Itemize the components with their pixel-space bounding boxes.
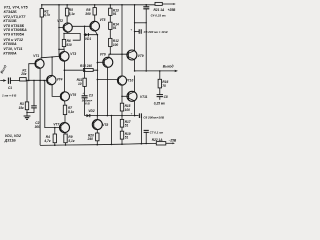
wire VT3 emitter to bus [63,61,65,70]
svg-text:VT5: VT5 [100,18,106,22]
svg-text:С4 0,33 мк: С4 0,33 мк [151,13,167,17]
column x122 [121,5,123,116]
svg-text:КТ808А: КТ808А [3,51,17,55]
svg-text:5,1к: 5,1к [69,12,75,16]
node input junctions [28,80,30,82]
svg-text:+25В: +25В [168,8,176,12]
resistor R21 [155,2,162,5]
svg-text:70: 70 [162,84,166,88]
input label Вход [0,64,8,74]
svg-text:VD2: VD2 [88,109,94,113]
resistor R10 [83,69,93,72]
legend text block [3,6,28,56]
capacitor C6 [135,115,139,117]
transistor VT8 [92,120,102,130]
capacitor C5 [134,31,136,33]
output wire [135,70,175,72]
capacitor C8 [159,88,161,95]
resistor R19 [120,131,123,139]
wire VT2 emitter to VT5 base [72,25,91,27]
diode VD1 [85,34,98,36]
wire bias line y115 [98,115,135,117]
wire y70 [64,69,97,71]
wire base VT1 riser [29,64,36,81]
resistor R11 [83,78,86,86]
capacitor C4 [145,5,147,7]
wire [10,80,19,82]
svg-text:300: 300 [35,125,41,129]
svg-text:VT1: VT1 [33,54,39,58]
resistor R1 [20,78,27,81]
resistor R20 [96,130,98,133]
resistor R7 [64,101,66,105]
resistors R13 R14 R12 column [109,5,111,8]
svg-text:+: + [82,91,84,95]
svg-text:10: 10 [78,82,82,86]
svg-text:91: 91 [113,26,117,30]
svg-text:510: 510 [66,43,72,47]
svg-text:20к: 20к [20,72,27,76]
svg-text:VT11: VT11 [140,95,148,99]
wire VT6 emitter [106,67,108,116]
svg-text:VT6: VT6 [100,53,106,57]
wire VT2 lower loop [64,32,80,40]
svg-text:–25В: –25В [169,138,177,142]
resistor R4 [54,128,56,134]
svg-text:+: + [131,111,133,115]
svg-text:4,7к: 4,7к [43,139,50,143]
wire VT1 collector [41,56,59,59]
capacitor C1 [8,78,10,84]
svg-text:51: 51 [125,123,129,127]
svg-text:240: 240 [87,137,94,141]
resistor R16 [159,71,161,79]
svg-text:5,1к: 5,1к [68,110,74,114]
svg-text:Д311Б: Д311Б [4,138,16,142]
svg-text:VT4: VT4 [57,78,63,82]
svg-text:R21 1А: R21 1А [154,8,166,12]
resistor R6 [62,39,65,46]
wire VT7 base [45,81,61,128]
resistor R3 [26,81,28,117]
svg-text:100: 100 [125,108,131,112]
bottom rail [40,143,156,145]
svg-text:VD1: VD1 [85,37,91,41]
wire VT5 emitter column [95,31,98,116]
wire VT1 emitter long drop [39,68,41,145]
top rail [42,4,155,6]
svg-text:С7 0,1 мк: С7 0,1 мк [150,130,164,134]
svg-text:КТ808А: КТ808А [3,42,17,46]
svg-text:4,7к: 4,7к [43,13,50,17]
svg-text:R10 240: R10 240 [80,64,92,68]
wire column C3 [84,26,86,96]
svg-text:1 мк × 6 В: 1 мк × 6 В [2,94,17,98]
resistor R9 [65,132,66,134]
ground [24,116,31,119]
diode VD2 [85,115,98,117]
wire VT2 base [59,27,63,29]
svg-text:С6 200мк×10В: С6 200мк×10В [143,116,165,120]
svg-text:15к: 15к [19,106,25,110]
resistor R5 [65,8,68,16]
capacitor C2 [27,81,34,113]
svg-text:91: 91 [113,12,117,16]
svg-text:КТ313Б: КТ313Б [3,19,17,23]
input terminal [0,80,3,82]
svg-text:VT9: VT9 [138,54,144,58]
svg-text:С8: С8 [164,95,168,99]
svg-text:С3: С3 [89,94,93,98]
svg-text:Выход: Выход [163,65,174,69]
svg-text:VT7: VT7 [53,123,59,127]
svg-text:С1: С1 [8,86,12,90]
resistor R2 [40,9,43,17]
wire to VT4 base [26,79,48,81]
wire VT6 collector [109,54,128,57]
svg-text:VT8 КТ805БА: VT8 КТ805БА [3,28,27,32]
column right VT9/VT11 [134,5,136,116]
svg-text:VT2: VT2 [57,19,63,23]
svg-text:0,25 мк: 0,25 мк [154,102,165,106]
svg-text:VT3: VT3 [70,52,76,56]
svg-text:51: 51 [125,135,129,139]
wire mid bus [58,5,60,57]
svg-text:+: + [130,28,132,32]
svg-text:100: 100 [113,43,119,47]
svg-text:360: 360 [85,12,91,16]
svg-text:КТ342Б: КТ342Б [4,10,18,14]
wire VT4 emitter to VT7a base [52,85,61,97]
capacitor C3 [82,96,88,98]
resistor R8 [93,8,96,15]
+25V terminal [146,3,173,6]
svg-text:Вход: Вход [0,64,8,74]
svg-text:R22 1А: R22 1А [152,138,164,142]
resistor R17 [120,119,123,127]
svg-text:VT9 КТ805А: VT9 КТ805А [3,32,24,36]
svg-text:С5 200 мк × 10 В: С5 200 мк × 10 В [144,30,169,34]
svg-text:VT6: VT6 [70,93,76,97]
wire drop x111 to rail [110,116,112,145]
svg-text:5,1к: 5,1к [68,139,74,143]
capacitor C7 [144,130,149,132]
svg-text:VT8: VT8 [102,123,108,127]
resistor R22 [156,142,166,145]
